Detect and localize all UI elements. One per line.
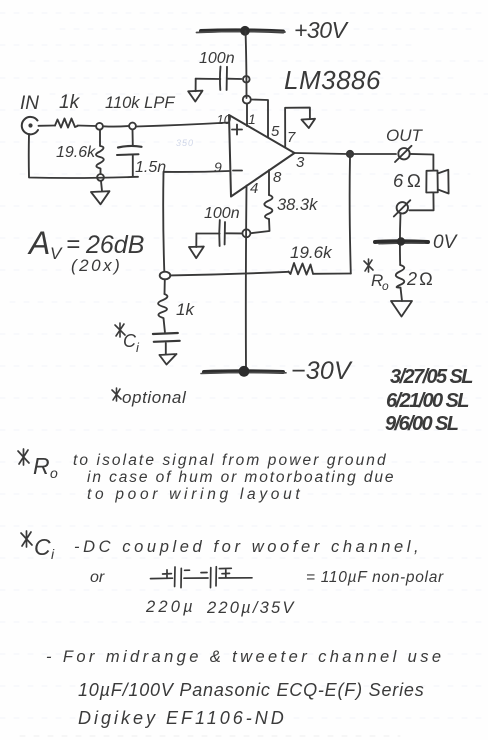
svg-text:220µ: 220µ — [145, 598, 196, 616]
svg-text:6Ω: 6Ω — [393, 170, 425, 191]
wire pin8 — [268, 170, 270, 195]
connector J2 OUT phono — [395, 146, 412, 162]
svg-text:i: i — [51, 546, 55, 562]
wire output pin3 — [295, 153, 349, 154]
svg-text:6/21/00 SL: 6/21/00 SL — [386, 390, 469, 412]
wire noninverting input — [136, 123, 229, 127]
ground G4 — [159, 354, 176, 365]
svg-text:or: or — [90, 569, 105, 586]
label *optional star — [112, 388, 121, 401]
svg-text:i: i — [136, 340, 140, 355]
capacitor sketch back-to-back electrolytics — [151, 577, 173, 579]
svg-text:0V: 0V — [433, 232, 459, 253]
svg-text:LM3886: LM3886 — [284, 65, 381, 95]
ground G1 — [188, 91, 202, 102]
wire R1 to node1 — [78, 125, 97, 128]
svg-text:8: 8 — [273, 169, 282, 186]
resistor R3 19.6k feedback — [289, 263, 314, 275]
wire feedback horizontal right — [313, 273, 351, 275]
svg-text:5: 5 — [271, 123, 280, 140]
svg-text:10µF/100V Panasonic ECQ-E(F) S: 10µF/100V Panasonic ECQ-E(F) Series — [78, 680, 425, 700]
capacitor Ci — [153, 333, 180, 354]
capacitor C2 100n bottom — [196, 220, 242, 246]
svg-text:220µ/35V: 220µ/35V — [206, 599, 296, 617]
wire pin5 — [251, 100, 268, 138]
svg-text:C: C — [34, 534, 51, 560]
svg-text:(20x): (20x) — [71, 256, 122, 275]
wire jack to R1 — [39, 125, 56, 127]
wire speaker to jack2 — [410, 193, 434, 211]
wire jack to speaker — [410, 154, 434, 171]
svg-text:IN: IN — [20, 93, 39, 114]
svg-text:to isolate signal from power g: to isolate signal from power ground — [73, 452, 388, 469]
svg-text:= 110µF non-polar: = 110µF non-polar — [306, 569, 444, 586]
op-amp minus sign — [233, 170, 242, 172]
svg-text:9: 9 — [214, 159, 222, 175]
ground G5 — [391, 301, 412, 317]
wire pin1 — [246, 104, 248, 127]
-30V rail — [204, 369, 283, 374]
node -30V junction blob — [239, 366, 250, 377]
wire output to jack — [353, 153, 396, 155]
speaker LS1 — [426, 170, 448, 194]
svg-text:in case of hum or motorboating: in case of hum or motorboating due — [87, 469, 395, 486]
svg-text:o: o — [50, 465, 58, 481]
node N2 — [129, 123, 136, 130]
svg-text:10: 10 — [217, 112, 232, 127]
wire inverting input pin9 — [163, 171, 229, 272]
svg-text:A: A — [27, 225, 50, 261]
svg-text:19.6k: 19.6k — [56, 144, 96, 161]
ground G2 pin7 — [302, 119, 316, 128]
capacitor C1 100n top — [196, 67, 242, 91]
op-amp plus sign — [232, 125, 242, 135]
svg-text:+30V: +30V — [294, 17, 350, 43]
label *Ci star — [115, 323, 125, 337]
svg-text:100n: 100n — [199, 50, 235, 67]
note Ci star — [21, 531, 32, 547]
svg-text:−30V: −30V — [291, 357, 353, 385]
svg-text:Digikey EF1106-ND: Digikey EF1106-ND — [78, 708, 287, 728]
svg-text:optional: optional — [122, 388, 187, 407]
svg-text:19.6k: 19.6k — [290, 243, 333, 262]
connector J1 IN phono — [22, 117, 38, 134]
wire node to R4 — [164, 279, 166, 294]
resistor R4 1k — [158, 294, 167, 332]
svg-text:4: 4 — [250, 180, 258, 197]
svg-text:o: o — [382, 279, 389, 293]
wire pin7 and ground — [285, 108, 310, 147]
node pin1 junction — [243, 96, 251, 104]
wire pin4 down — [245, 186, 248, 372]
wire R2 to junction — [251, 219, 270, 233]
wire V+ vertical — [246, 31, 247, 98]
0V rail — [375, 239, 428, 244]
svg-text:to poor wiring layout: to poor wiring layout — [87, 486, 303, 503]
svg-text:26dB: 26dB — [85, 231, 144, 259]
+30V rail — [201, 30, 283, 31]
connector J3 phono return — [394, 200, 411, 216]
note Ro star — [18, 449, 29, 465]
svg-text:R: R — [33, 453, 50, 479]
svg-text:- For midrange & tweeter chann: - For midrange & tweeter channel use — [46, 648, 444, 666]
resistor R1 1k input — [55, 119, 78, 128]
node cap to V+ — [243, 76, 250, 83]
node output junction — [347, 151, 353, 157]
wire feedback to node Ci — [170, 272, 288, 276]
node feedback junction — [160, 272, 171, 280]
node pin4 junction — [242, 229, 250, 237]
svg-text:-DC coupled for woofer channel: -DC coupled for woofer channel, — [74, 538, 422, 556]
polarity marks — [163, 570, 172, 578]
capacitor C3 1.5n — [117, 130, 142, 177]
resistor R5 2ohm Ro — [396, 265, 405, 301]
ground G6 input — [91, 181, 110, 204]
node 0V junction — [397, 237, 405, 245]
wire node1 to node2 — [103, 125, 129, 128]
resistor R2 38.3k — [264, 195, 272, 219]
label *Ro star — [364, 259, 373, 272]
resistor R6 19.6k shunt — [96, 130, 104, 174]
svg-text:9/6/00 SL: 9/6/00 SL — [385, 413, 459, 435]
svg-text:3/27/05 SL: 3/27/05 SL — [390, 366, 473, 388]
svg-text:350: 350 — [176, 138, 194, 148]
node N1 — [96, 123, 103, 130]
wire input ground bus — [29, 134, 138, 178]
svg-text:3: 3 — [296, 154, 305, 171]
svg-text:38.3k: 38.3k — [277, 196, 318, 214]
svg-text:110k LPF: 110k LPF — [105, 94, 175, 112]
ground G3 — [189, 247, 204, 259]
svg-text:OUT: OUT — [386, 126, 424, 145]
wire feedback vertical — [350, 157, 351, 274]
node V+ junction blob — [240, 26, 250, 36]
node N3 — [97, 174, 104, 181]
svg-text:1k: 1k — [176, 300, 195, 319]
svg-text:V: V — [50, 244, 63, 263]
svg-text:1.5n: 1.5n — [135, 159, 166, 176]
svg-text:1k: 1k — [59, 92, 81, 113]
svg-text:C: C — [123, 331, 137, 351]
svg-text:=: = — [66, 231, 80, 258]
svg-text:7: 7 — [287, 129, 296, 146]
svg-text:100n: 100n — [204, 205, 240, 222]
svg-text:2Ω: 2Ω — [406, 269, 435, 289]
svg-text:1: 1 — [248, 111, 256, 127]
wire jack2 down — [399, 214, 402, 266]
